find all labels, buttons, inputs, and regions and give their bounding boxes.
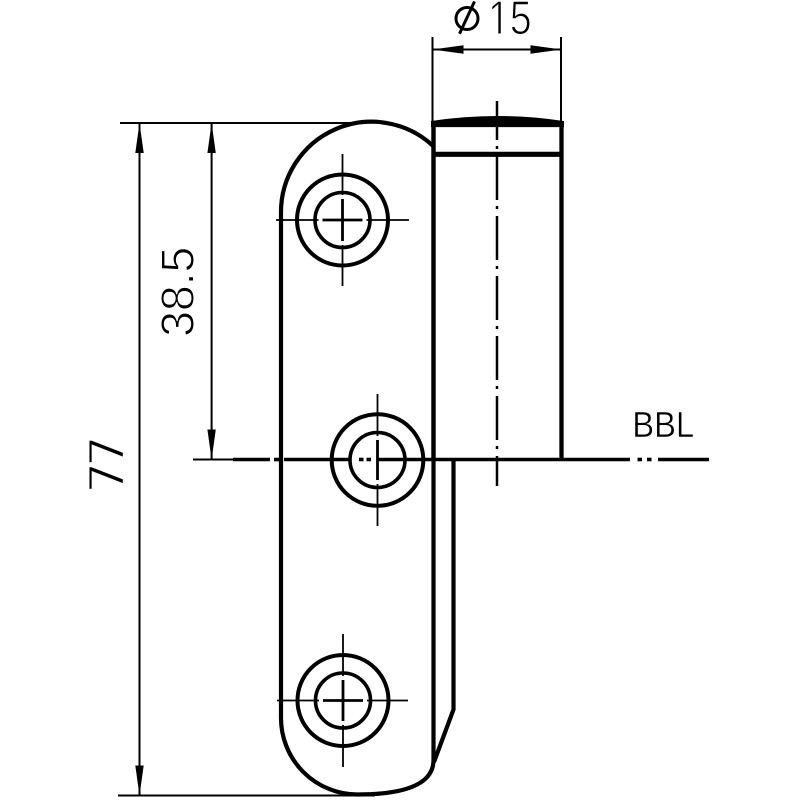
dimension 77 arrow down — [135, 766, 143, 796]
dimension dia15 extension right — [560, 37, 562, 122]
hole H3 outer circle — [298, 655, 389, 746]
BBL center line — [193, 459, 709, 461]
dimension dia15 extension left — [432, 37, 434, 121]
dimension 38.5 arrow up — [207, 123, 215, 153]
dimension 38.5 arrow down — [207, 430, 215, 460]
pin cap underline — [432, 152, 564, 157]
knuckle right edge — [559, 124, 563, 460]
label 77 — [89, 440, 123, 489]
extension line top — [120, 122, 357, 124]
hole H3 center cross — [277, 634, 408, 767]
dimension 77 arrow up — [135, 123, 143, 153]
hole H1 outer circle — [297, 175, 388, 266]
hole H2 inner circle — [350, 433, 405, 488]
label diameter symbol — [456, 2, 478, 34]
pin cap crown — [432, 117, 564, 127]
dimension 77 line — [139, 123, 141, 796]
knuckle left edge — [431, 124, 435, 460]
lower tab edge — [434, 461, 454, 762]
hole H2 vertical center line — [377, 394, 379, 526]
dimension 38.5 line — [211, 123, 213, 460]
dimension dia15 arrow left — [433, 45, 464, 53]
hole H1 center cross — [276, 154, 409, 286]
knuckle vertical center line — [496, 101, 499, 486]
label BBL — [635, 412, 693, 437]
extension line bottom — [118, 795, 375, 797]
hole H3 inner circle — [316, 673, 371, 728]
knuckle center line top tick — [481, 118, 519, 120]
label 38.5 — [161, 249, 194, 335]
label 15 — [492, 1, 530, 34]
dimension dia15 arrow right — [531, 45, 562, 53]
plate outline — [281, 122, 434, 795]
dimension dia15 line — [433, 49, 562, 51]
hole H1 inner circle — [315, 193, 370, 248]
hole H2 outer circle — [332, 414, 424, 506]
